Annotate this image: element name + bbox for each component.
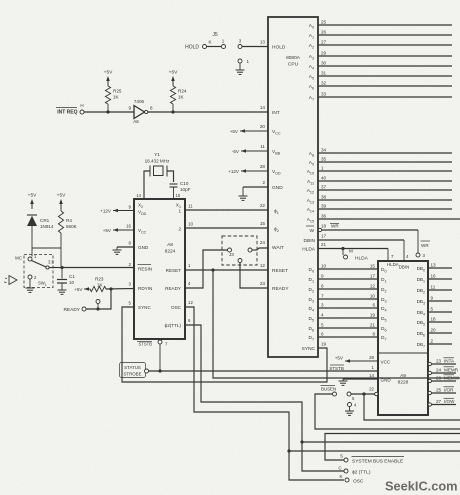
wire R23 to RDYIN: [106, 288, 134, 291]
wire J5 pin K to pin 1: [207, 39, 225, 47]
svg-text:11: 11: [260, 144, 265, 149]
svg-text:29: 29: [321, 51, 327, 56]
node phi2 TTL output: [338, 466, 370, 476]
node D3 data line CPU pin 7 to 8228 pin 10: [308, 294, 386, 304]
pin 24 WAIT label: [260, 240, 284, 251]
svg-text:READY: READY: [272, 286, 289, 292]
svg-text:I/OR: I/OR: [444, 388, 454, 393]
wire BUSEN stub down: [364, 394, 460, 420]
svg-text:21: 21: [321, 242, 327, 247]
pin 21 HLDA: [302, 242, 326, 253]
pin 18 WR: [306, 224, 339, 235]
svg-text:I/OW: I/OW: [444, 399, 455, 404]
svg-text:C1: C1: [69, 274, 75, 279]
wire switch to RESIN: [49, 267, 134, 269]
node A14 address line pin 39: [307, 204, 452, 214]
node A3 address line pin 29: [309, 51, 452, 61]
junction READY tap: [96, 307, 99, 310]
node A15 address line pin 36: [307, 214, 460, 224]
svg-text:K: K: [208, 40, 211, 45]
svg-text:19: 19: [321, 342, 327, 347]
svg-text:READY: READY: [165, 286, 181, 291]
jumper BUSEN post B: [347, 392, 355, 401]
node A12 address line pin 37: [307, 185, 452, 195]
svg-text:13: 13: [431, 263, 437, 268]
svg-text:18.432 MHz: 18.432 MHz: [145, 159, 170, 164]
svg-text:10: 10: [370, 294, 376, 299]
diode CR1 1N914: [27, 215, 54, 248]
svg-text:17: 17: [321, 234, 327, 239]
pin 15 X1 label: [176, 193, 181, 198]
jumper J5 pin 4: [238, 59, 250, 64]
svg-text:28: 28: [369, 355, 374, 360]
pin 28 VCC +5V: [335, 355, 391, 365]
ground J5: [236, 63, 245, 74]
wire X2 lead: [144, 171, 150, 199]
node INT REQ input: [56, 103, 84, 116]
node DB0 bus line pin 13: [417, 263, 452, 273]
junction BUSEN: [362, 392, 365, 395]
svg-text:GND: GND: [272, 185, 283, 191]
svg-text:27: 27: [321, 40, 327, 45]
svg-text:CPU: CPU: [288, 62, 299, 68]
svg-text:WAIT: WAIT: [272, 245, 284, 251]
svg-text:INT REQ: INT REQ: [57, 110, 77, 116]
svg-text:R25: R25: [113, 89, 122, 94]
svg-text:16: 16: [431, 274, 437, 279]
jumper BUSEN post C ground: [345, 403, 357, 416]
svg-text:15: 15: [370, 264, 376, 269]
wire RESET to edge: [213, 270, 460, 378]
node READY test point: [96, 300, 100, 310]
svg-text:1N914: 1N914: [40, 224, 54, 229]
svg-text:1K: 1K: [113, 95, 120, 100]
sys-controller U-A9 8228 body: [378, 261, 428, 415]
pin 24 MEMR control output: [428, 367, 459, 375]
svg-text:6: 6: [372, 303, 375, 308]
svg-text:9: 9: [321, 274, 324, 279]
node DB6 bus line pin 20: [417, 328, 452, 338]
svg-text:36: 36: [321, 214, 327, 219]
pin 26 MEMW control output: [428, 375, 460, 383]
svg-text:J3: J3: [229, 252, 234, 257]
svg-text:26: 26: [321, 30, 327, 35]
pin 22 BUSEN: [369, 387, 378, 396]
ground SW1: [26, 279, 35, 292]
node DB1 bus line pin 16: [417, 274, 452, 284]
pin 12 OSC: [171, 300, 193, 310]
svg-text:INT: INT: [272, 110, 280, 116]
svg-text:38: 38: [321, 195, 327, 200]
node D5 data line CPU pin 4 to 8228 pin 19: [308, 313, 386, 323]
svg-text:STATUS: STATUS: [124, 365, 141, 370]
svg-text:DBIN: DBIN: [304, 238, 316, 244]
svg-text:15: 15: [260, 221, 266, 226]
svg-text:18: 18: [431, 317, 437, 322]
pin 28 VDD +12V: [228, 164, 281, 175]
svg-text:27: 27: [436, 399, 442, 404]
svg-text:H: H: [80, 103, 83, 108]
jumper J5 label: [212, 32, 218, 38]
svg-text:10: 10: [69, 280, 75, 285]
pin 4 READY: [165, 281, 191, 291]
pin 8 GND ground: [113, 241, 149, 255]
svg-text:WR: WR: [421, 243, 429, 248]
svg-text:RESET: RESET: [272, 268, 288, 274]
node A10 address line pin 1: [307, 166, 452, 176]
svg-text:SeekIC.com: SeekIC.com: [385, 478, 458, 493]
svg-text:Y1: Y1: [154, 152, 160, 158]
svg-text:+5V: +5V: [103, 228, 112, 233]
svg-text:24: 24: [260, 240, 266, 245]
svg-text:31: 31: [321, 71, 327, 76]
node DB3 bus line pin 9: [417, 296, 452, 306]
wire phi2TTL branch to edge: [302, 441, 460, 443]
svg-text:9: 9: [431, 296, 434, 301]
svg-text:SYNC: SYNC: [138, 305, 151, 310]
svg-text:22: 22: [369, 387, 374, 392]
svg-text:ϕ2 (TTL): ϕ2 (TTL): [352, 470, 371, 476]
pin 7 STSTB bottom: [137, 340, 168, 347]
svg-text:26: 26: [436, 376, 442, 381]
svg-text:24: 24: [436, 368, 442, 373]
power +5V for R25: [104, 70, 113, 87]
svg-text:18: 18: [321, 224, 327, 229]
resistor R4 560K: [58, 211, 77, 248]
wire reset rail: [32, 248, 61, 266]
svg-text:6: 6: [321, 332, 324, 337]
svg-text:25: 25: [436, 388, 442, 393]
svg-text:RESIN: RESIN: [138, 267, 152, 272]
wire STSTB line: [148, 370, 378, 372]
junction R24: [171, 110, 174, 113]
svg-text:STSTB: STSTB: [139, 342, 153, 347]
wire RESET 8224 to CPU: [185, 269, 268, 271]
svg-text:MEMR: MEMR: [444, 368, 459, 373]
node DB4 bus line pin 5: [417, 307, 452, 317]
wire J5 pin3 to CPU HOLD pin 13: [242, 46, 268, 48]
pin 5 SYNC: [129, 301, 152, 311]
svg-text:MC: MC: [15, 256, 22, 261]
resistor R23 1K: [90, 277, 106, 292]
node A7 address line pin 33: [309, 92, 452, 102]
svg-text:ϕ2(TTL): ϕ2(TTL): [165, 323, 182, 328]
wire HLDA to 8228 pin 7: [318, 249, 388, 262]
svg-text:22: 22: [260, 203, 266, 208]
svg-text:CR1: CR1: [40, 218, 50, 223]
svg-text:C10: C10: [180, 181, 189, 186]
svg-text:4: 4: [321, 313, 324, 318]
junction OSC branch: [287, 449, 290, 452]
svg-text:7: 7: [321, 294, 324, 299]
svg-text:-5V: -5V: [232, 149, 240, 154]
node SYSTEM BUS ENABLE output: [340, 454, 404, 465]
svg-text:20: 20: [260, 124, 266, 129]
power +5V for R24: [169, 70, 178, 87]
inverter A6 7406: [128, 99, 153, 124]
pin 23 INTA control output: [428, 358, 456, 366]
svg-text:11: 11: [188, 204, 193, 209]
svg-text:37: 37: [321, 185, 327, 190]
switch SW1 post 1: [15, 254, 37, 261]
svg-text:40: 40: [321, 176, 327, 181]
switch SW1 arm: [32, 260, 55, 270]
wire inverter out to CPU INT pin 14: [148, 111, 268, 113]
pin 25 I/OR control output: [428, 387, 456, 395]
wire X1 lead: [167, 171, 174, 182]
svg-text:+5V: +5V: [230, 129, 239, 134]
svg-text:OSC: OSC: [171, 305, 182, 310]
svg-text:21: 21: [370, 323, 376, 328]
junction C1: [60, 266, 63, 269]
svg-text:HOLD: HOLD: [185, 45, 199, 51]
svg-text:2: 2: [262, 180, 265, 185]
svg-text:J5: J5: [212, 32, 218, 38]
svg-text:+5V: +5V: [28, 193, 37, 199]
op CPU U-A7 8080A body: [268, 17, 318, 357]
pin 4 DBIN top: [399, 254, 410, 270]
node A0 address line pin 25: [309, 20, 452, 30]
svg-text:HLDA: HLDA: [302, 247, 316, 253]
svg-text:+5V: +5V: [169, 70, 178, 76]
svg-text:12: 12: [260, 263, 266, 268]
pin 1 STSTB: [329, 365, 374, 371]
node A9 address line pin 35: [309, 157, 452, 167]
pin 16 VCC +5V: [103, 224, 147, 235]
svg-text:STROBE: STROBE: [123, 372, 141, 377]
pin 12 RESET label: [260, 263, 288, 274]
watermark: [385, 478, 458, 493]
svg-text:M: M: [349, 249, 353, 254]
node D6 data line CPU pin 5 to 8228 pin 21: [308, 323, 386, 333]
node A5 address line pin 31: [309, 71, 452, 81]
svg-text:11: 11: [431, 285, 436, 290]
svg-text:2: 2: [178, 227, 181, 232]
svg-text:BUSEN: BUSEN: [321, 387, 336, 392]
svg-text:A6: A6: [133, 119, 139, 124]
svg-text:RESET: RESET: [166, 268, 182, 273]
jumper J5 pin 3: [238, 39, 242, 49]
node A6 address line pin 32: [309, 81, 452, 91]
svg-text:14: 14: [260, 105, 266, 110]
pin 1 RESET: [166, 263, 191, 273]
svg-text:23: 23: [260, 281, 266, 286]
svg-text:HOLD: HOLD: [272, 45, 286, 51]
jumper J5 pin 1: [222, 45, 226, 49]
svg-text:SYNC: SYNC: [302, 346, 316, 352]
junction STSTB: [158, 369, 161, 372]
node D0 data line CPU pin 10 to 8228 pin 15: [308, 264, 386, 274]
svg-text:7406: 7406: [134, 99, 145, 104]
wire system bus enable feed: [325, 434, 460, 461]
svg-text:+5V: +5V: [104, 70, 113, 76]
resistor R24 1K: [170, 86, 186, 112]
svg-text:20: 20: [431, 328, 437, 333]
svg-text:1: 1: [321, 166, 324, 171]
capacitor C1 10uF: [57, 268, 75, 295]
node D4 data line CPU pin 3 to 8228 pin 6: [308, 303, 386, 313]
svg-text:14: 14: [369, 373, 374, 378]
pin 20 VCC +5V: [230, 124, 281, 135]
svg-text:17: 17: [370, 274, 376, 279]
pin 17 DBIN: [304, 234, 327, 245]
svg-text:+5V: +5V: [335, 356, 344, 361]
svg-text:2: 2: [431, 339, 434, 344]
svg-text:35: 35: [321, 157, 327, 162]
pin 7 HLDA top: [387, 254, 399, 267]
pointer annotation: [4, 276, 17, 285]
wire DBIN to 8228 pin 4: [318, 240, 404, 261]
pin 2 RESIN: [129, 262, 153, 272]
node READY input: [63, 289, 111, 313]
svg-text:8224: 8224: [165, 249, 176, 255]
svg-text:8: 8: [321, 284, 324, 289]
switch SW1 label: [38, 281, 47, 288]
power +5V for R4: [57, 193, 66, 212]
svg-text:HLDA: HLDA: [355, 256, 369, 262]
svg-text:+12V: +12V: [100, 209, 112, 214]
node A8 address line pin 34: [309, 148, 452, 158]
svg-text:10: 10: [188, 222, 193, 227]
pin 11 phi1 to CPU: [178, 204, 268, 214]
jumper J3 post C: [238, 259, 242, 263]
svg-text:14: 14: [136, 193, 141, 198]
svg-text:34: 34: [321, 148, 327, 153]
node DB7 bus line pin 2: [417, 339, 452, 349]
svg-text:1K: 1K: [178, 95, 185, 100]
node STATUS STROBE: [120, 363, 149, 378]
node A13 address line pin 38: [307, 195, 452, 205]
svg-text:+12V: +12V: [228, 169, 240, 174]
svg-text:WR: WR: [331, 224, 339, 229]
wire READY to J3: [185, 250, 228, 288]
svg-text:VCC: VCC: [381, 360, 391, 365]
node HOLD input: [185, 45, 206, 51]
svg-text:+5V: +5V: [74, 287, 83, 292]
node HLDA test point M: [343, 249, 369, 262]
svg-text:R23: R23: [95, 277, 104, 282]
svg-text:33: 33: [321, 92, 327, 97]
node A2 address line pin 27: [309, 40, 452, 50]
jumper J3 post A: [228, 248, 235, 257]
svg-text:8080A: 8080A: [286, 55, 301, 61]
svg-text:560K: 560K: [66, 224, 78, 229]
wire J3 to CPU READY: [240, 263, 268, 289]
svg-text:3.5: 3.5: [48, 260, 54, 265]
svg-text:16: 16: [126, 224, 131, 229]
svg-text:10: 10: [321, 264, 327, 269]
svg-text:HLDA: HLDA: [387, 262, 399, 267]
node DB2 bus line pin 11: [417, 285, 452, 295]
node A4 address line pin 30: [309, 61, 452, 71]
jumper BUSEN post A: [321, 386, 337, 397]
pin 14 INT label: [260, 105, 280, 116]
svg-text:MEMW: MEMW: [444, 376, 460, 381]
junction phi2TTL branch: [300, 440, 303, 443]
jumper J3 post B: [248, 248, 252, 252]
svg-text:13: 13: [260, 40, 266, 45]
junction HLDA tap: [341, 247, 344, 250]
pin 10 phi2 to CPU: [178, 222, 268, 232]
svg-text:STSTB: STSTB: [329, 366, 344, 371]
wire WR to 8228 pin 3: [322, 230, 418, 253]
wire J3 to CPU WAIT: [252, 248, 268, 250]
svg-text:INTA: INTA: [444, 359, 455, 364]
svg-text:OSC: OSC: [353, 479, 364, 485]
svg-text:S: S: [340, 454, 343, 459]
svg-text:15: 15: [176, 193, 181, 198]
jumper J3 box: [222, 236, 257, 265]
pin 3 RDYIN: [129, 282, 153, 292]
svg-text:1K: 1K: [97, 283, 104, 288]
svg-text:RDYIN: RDYIN: [138, 286, 152, 291]
pin 9 VDD +12V: [100, 205, 147, 216]
svg-text:12: 12: [188, 300, 193, 305]
switch SW1 box: [24, 255, 53, 288]
pin 2 GND ground: [239, 180, 284, 200]
pin 27 I/OW control output: [428, 398, 456, 406]
power +5V for CR1: [28, 193, 37, 210]
svg-text:8: 8: [372, 332, 375, 337]
svg-text:3: 3: [321, 303, 324, 308]
svg-text:GND: GND: [138, 245, 149, 250]
node A1 address line pin 26: [309, 30, 452, 40]
svg-text:A8: A8: [167, 242, 173, 248]
svg-text:39: 39: [321, 204, 327, 209]
wire BUSEN: [351, 393, 375, 395]
svg-text:23: 23: [436, 359, 442, 364]
node OSC output: [339, 474, 363, 485]
svg-text:32: 32: [321, 81, 327, 86]
pin 19 SYNC: [302, 342, 327, 353]
svg-text:SYSTEM BUS ENABLE: SYSTEM BUS ENABLE: [352, 459, 403, 465]
svg-text:R24: R24: [178, 89, 187, 94]
wire BUSEN to off-page: [315, 394, 460, 429]
svg-text:1: 1: [45, 283, 47, 287]
power +5V for R23: [74, 287, 90, 292]
svg-text:12: 12: [370, 284, 376, 289]
resistor R25 1K: [105, 86, 121, 112]
pin 23 READY label: [260, 281, 289, 292]
svg-text:W: W: [309, 228, 314, 234]
svg-text:10pF: 10pF: [180, 187, 191, 192]
pin 3 WR top: [416, 241, 430, 258]
pin 14 X2 label: [136, 193, 141, 198]
svg-text:5: 5: [321, 323, 324, 328]
svg-text:28: 28: [260, 164, 266, 169]
pin 15 phi2 label: [260, 221, 279, 233]
pin 11 VBB -5V: [232, 144, 281, 155]
pin 22 phi1 label: [260, 203, 279, 215]
crystal Y1 18.432 MHz: [145, 152, 170, 177]
svg-text:A9: A9: [400, 373, 406, 379]
svg-text:READY: READY: [63, 307, 80, 313]
node DB5 bus line pin 18: [417, 317, 452, 327]
junction RDYIN: [109, 287, 112, 290]
clock-gen U-A8 8224 body: [134, 199, 185, 339]
node D2 data line CPU pin 8 to 8228 pin 12: [308, 284, 386, 294]
svg-text:19: 19: [370, 313, 376, 318]
svg-text:R4: R4: [66, 218, 72, 223]
node D7 data line CPU pin 6 to 8228 pin 8: [308, 332, 386, 342]
svg-text:+5V: +5V: [57, 193, 66, 199]
svg-text:25: 25: [321, 20, 327, 25]
pin 14 GND ground: [339, 373, 392, 385]
wire SYNC CPU to 8224: [122, 307, 327, 382]
svg-text:5: 5: [431, 307, 434, 312]
wire OSC run: [185, 307, 344, 480]
svg-text:DBIN: DBIN: [399, 265, 410, 270]
